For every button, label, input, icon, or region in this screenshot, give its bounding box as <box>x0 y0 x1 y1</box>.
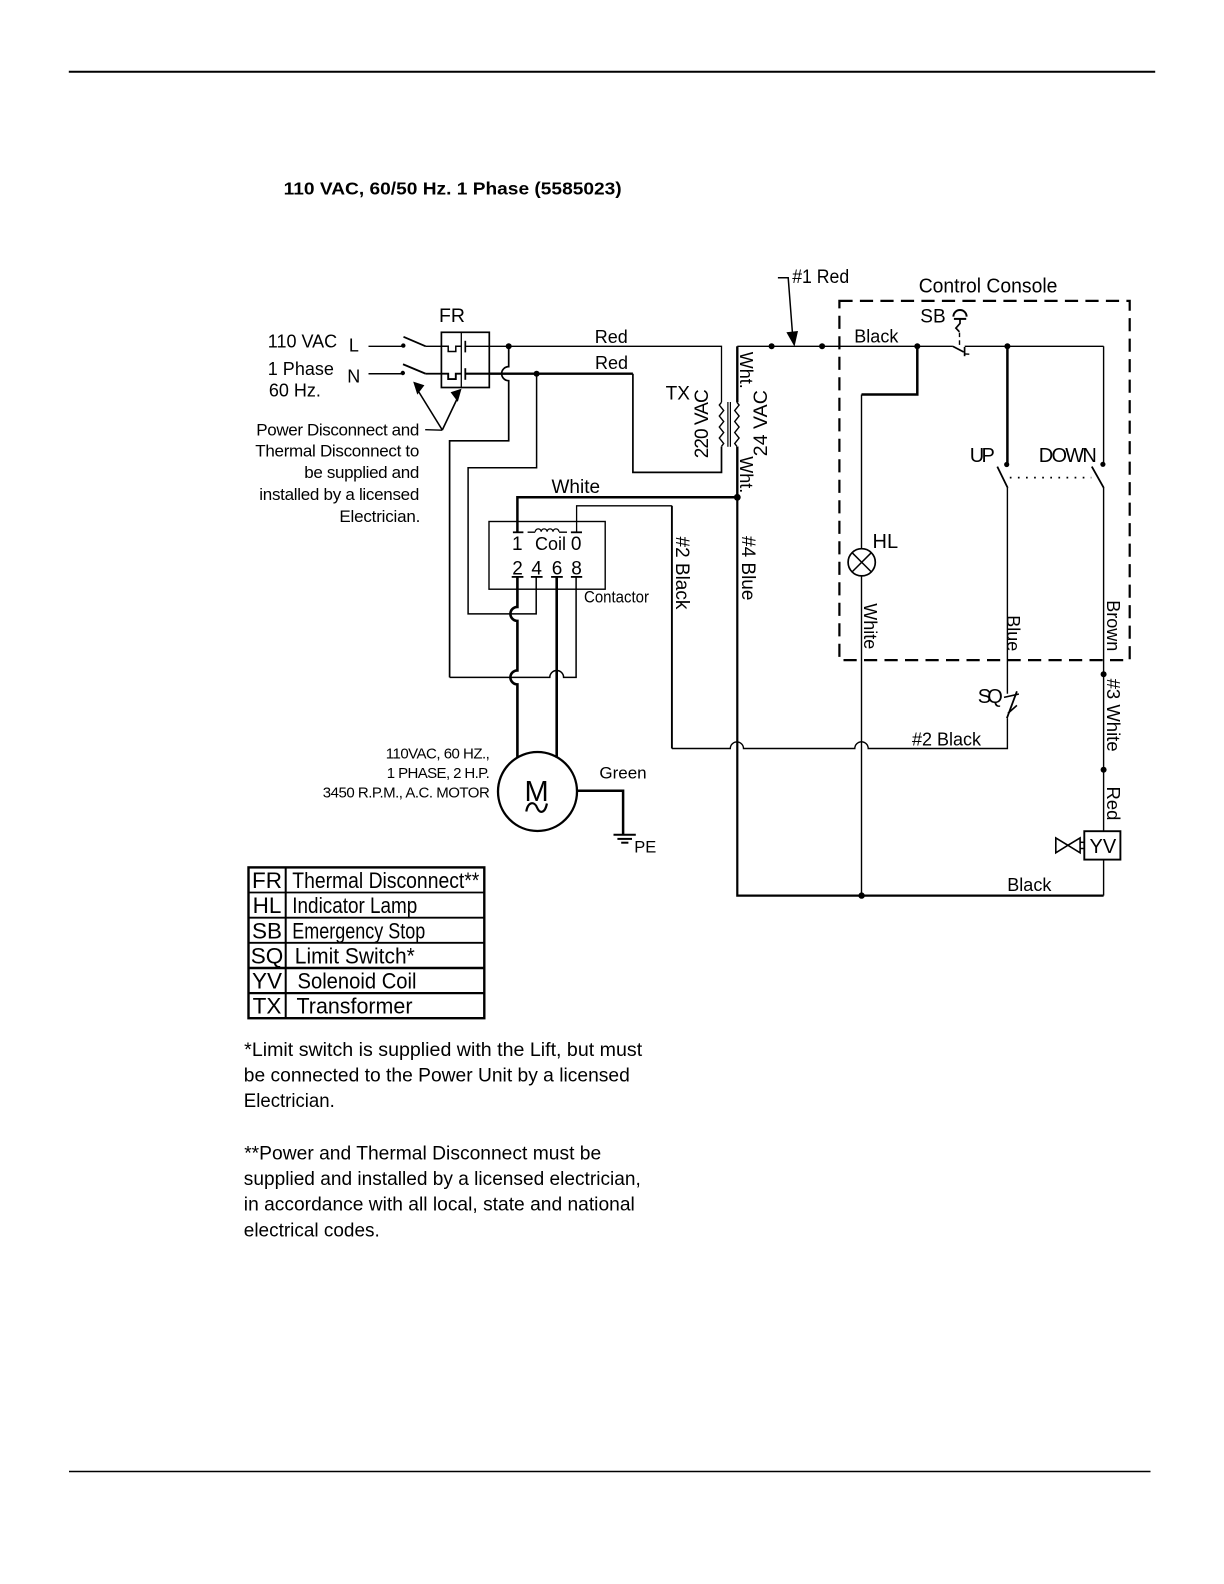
emergency stop SB mushroom head <box>953 310 966 317</box>
motor M circle <box>498 752 577 831</box>
wire YV bottom to Black rail <box>1103 860 1105 896</box>
wire L lead <box>369 345 404 347</box>
svg-text:Electrician.: Electrician. <box>244 1090 335 1112</box>
node Brown junction below console <box>1101 671 1107 677</box>
svg-text:Coil: Coil <box>535 534 566 554</box>
wire DOWN branch <box>1103 346 1105 463</box>
wire coil 0 to #2 Black <box>577 506 672 533</box>
leader arrows from note to disconnect and FR <box>417 389 458 430</box>
node TX secondary / White / #4 Blue junction <box>734 494 741 501</box>
svg-text:Black: Black <box>854 327 899 347</box>
FR contact wire L <box>465 345 489 347</box>
svg-text:#1 Red: #1 Red <box>792 267 849 288</box>
node #3 White / Red junction <box>1101 767 1107 773</box>
svg-text:YV: YV <box>252 969 282 994</box>
node DOWN contact <box>1100 462 1105 467</box>
svg-text:electrical codes.: electrical codes. <box>244 1219 380 1241</box>
svg-text:N: N <box>347 366 360 386</box>
node rail dot at UP branch <box>1004 343 1010 349</box>
wire route B (N rail down to contactor terminal 4) <box>468 374 536 614</box>
wire Red upper (L rail to TX primary) <box>489 346 721 402</box>
TX core <box>727 402 729 447</box>
svg-text:in accordance with all local,: in accordance with all local, state and … <box>244 1194 635 1216</box>
contactor box <box>489 522 605 590</box>
coil terminal tick 1 <box>513 531 524 533</box>
FR divider <box>460 332 462 387</box>
svg-text:UP: UP <box>970 445 995 467</box>
svg-text:#2 Black: #2 Black <box>912 729 982 749</box>
wire N loop to TX primary bottom <box>633 374 722 473</box>
node N contact <box>401 371 405 375</box>
svg-text:60 Hz.: 60 Hz. <box>269 380 321 400</box>
label 110 VAC 1 Phase 60 Hz. supply <box>268 332 337 401</box>
svg-text:HL: HL <box>873 531 899 553</box>
svg-text:Emergency Stop: Emergency Stop <box>292 918 425 943</box>
svg-text:Contactor: Contactor <box>584 588 649 607</box>
svg-text:3450 R.P.M., A.C. MOTOR: 3450 R.P.M., A.C. MOTOR <box>323 785 490 802</box>
svg-text:White: White <box>552 477 601 498</box>
svg-text:installed by a licensed: installed by a licensed <box>259 485 419 504</box>
svg-text:1 PHASE, 2 H.P.: 1 PHASE, 2 H.P. <box>387 765 490 782</box>
svg-text:FR: FR <box>252 868 282 893</box>
switch blade DOWN <box>1092 467 1104 488</box>
top rule <box>69 71 1155 73</box>
wire route A horizontal with hop over terminal 6 <box>450 577 576 678</box>
terminal tick 6 <box>551 576 563 578</box>
node rail dot 1 <box>769 343 775 349</box>
svg-text:Wht.: Wht. <box>736 456 756 493</box>
wire Black rail into console <box>737 345 953 347</box>
wire TX secondary bottom lead (Wht.) <box>736 447 738 498</box>
svg-text:Blue: Blue <box>1003 615 1023 651</box>
svg-text:Thermal Disconnect to: Thermal Disconnect to <box>255 442 419 461</box>
coil terminal tick 0 <box>571 531 582 533</box>
svg-text:Solenoid Coil: Solenoid Coil <box>298 969 417 994</box>
svg-text:0: 0 <box>571 534 582 555</box>
linkage dotted line UP-DOWN <box>1010 477 1092 479</box>
svg-text:YV: YV <box>1090 836 1117 858</box>
FR heater element L <box>441 346 461 351</box>
wire terminal 6 to motor <box>555 577 558 758</box>
svg-text:TX: TX <box>666 383 691 404</box>
svg-text:220 VAC: 220 VAC <box>692 389 713 458</box>
TX primary winding <box>719 402 723 446</box>
svg-text:HL: HL <box>253 893 282 918</box>
svg-text:110 VAC: 110 VAC <box>268 332 337 352</box>
thermal disconnect FR box <box>441 332 489 387</box>
svg-text:Control Console: Control Console <box>919 276 1058 298</box>
terminal tick 4 <box>531 576 543 578</box>
svg-text:SB: SB <box>252 918 282 943</box>
svg-text:SQ: SQ <box>251 943 284 968</box>
node UP contact <box>1004 462 1009 467</box>
SB stem and linkage <box>956 319 960 332</box>
node rail dot at HL branch <box>914 343 920 349</box>
FR contact wire N <box>465 373 489 375</box>
solenoid valve YV box <box>1084 831 1120 859</box>
svg-text:Indicator Lamp: Indicator Lamp <box>292 893 417 918</box>
leader line #1 Red <box>778 278 793 335</box>
wire UP branch <box>1006 346 1009 463</box>
limit switch SQ symbol <box>1004 694 1019 697</box>
svg-text:**Power and Thermal Disconnect: **Power and Thermal Disconnect must be <box>244 1142 601 1164</box>
svg-text:Limit Switch*: Limit Switch* <box>295 943 415 968</box>
motor spec text <box>323 745 490 801</box>
svg-text:TX: TX <box>253 994 282 1019</box>
indicator lamp HL <box>848 549 875 576</box>
contactor coil symbol <box>528 529 567 532</box>
svg-text:Electrician.: Electrician. <box>339 507 420 526</box>
svg-text:Transformer: Transformer <box>297 994 413 1019</box>
ground PE symbol <box>614 834 636 836</box>
svg-text:White: White <box>860 603 880 649</box>
svg-text:Wht.: Wht. <box>736 352 756 389</box>
wire #2 Black vertical <box>671 506 673 749</box>
switch blade N (power disconnect) <box>403 364 426 373</box>
node junction upper rail <box>506 343 512 349</box>
legend table frame <box>249 867 485 1018</box>
FR contact bar L <box>464 341 466 353</box>
wire #2 Black horizontal to SQ with hops <box>672 718 1008 748</box>
svg-text:110 VAC, 60/50 Hz. 1 Phase (55: 110 VAC, 60/50 Hz. 1 Phase (5585023) <box>284 179 622 199</box>
svg-text:#4 Blue: #4 Blue <box>737 536 758 600</box>
wire route A (L rail down to contactor terminal 8) <box>450 346 509 677</box>
switch blade L (power disconnect) <box>404 337 426 347</box>
svg-text:supplied and installed by a li: supplied and installed by a licensed ele… <box>244 1168 641 1190</box>
wire L to FR <box>426 345 442 347</box>
node rail dot 2 <box>819 343 825 349</box>
svg-text:*Limit switch is supplied with: *Limit switch is supplied with the Lift,… <box>244 1039 643 1061</box>
svg-text:SQ: SQ <box>978 686 1003 708</box>
svg-text:Red: Red <box>595 353 628 373</box>
svg-text:24 VAC: 24 VAC <box>750 390 772 456</box>
svg-text:Thermal Disconnect**: Thermal Disconnect** <box>292 868 479 893</box>
valve bowtie symbol <box>1056 838 1068 853</box>
terminal tick 8 <box>571 576 582 578</box>
svg-text:Black: Black <box>1007 875 1052 895</box>
wire step down to HL <box>862 346 918 394</box>
wire Green (motor to PE) <box>577 791 623 835</box>
FR contact bar N <box>464 368 466 380</box>
SB contact blade <box>953 346 964 352</box>
bottom rule <box>69 1471 1151 1473</box>
svg-text:FR: FR <box>439 305 465 327</box>
wire White (TX secondary to coil terminal 1) <box>517 497 737 531</box>
svg-text:SB: SB <box>920 307 945 328</box>
svg-text:Green: Green <box>599 763 646 782</box>
wire N lead <box>369 373 403 375</box>
TX secondary winding <box>735 402 739 446</box>
switch blade UP <box>997 467 1007 488</box>
footnote power disconnect <box>244 1142 641 1241</box>
footnote limit switch <box>244 1039 643 1112</box>
wire Red lower bold (N rail) <box>489 373 633 375</box>
svg-text:#2 Black: #2 Black <box>671 537 692 610</box>
svg-text:Power Disconnect and: Power Disconnect and <box>256 421 419 440</box>
terminal tick 2 <box>512 576 524 578</box>
svg-text:L: L <box>349 335 359 355</box>
svg-text:M: M <box>525 776 549 808</box>
motor AC tilde <box>526 803 547 812</box>
svg-text:PE: PE <box>634 838 656 856</box>
legend table text <box>251 868 480 1019</box>
svg-text:Brown: Brown <box>1103 600 1123 651</box>
wire HL top lead <box>861 395 863 549</box>
wire Brown (DOWN to YV) <box>1103 488 1105 831</box>
note Power Disconnect text block <box>255 421 420 526</box>
wire rail after SB <box>965 345 1104 347</box>
svg-text:be connected to the Power Unit: be connected to the Power Unit by a lice… <box>244 1065 630 1087</box>
svg-text:Red: Red <box>595 327 628 347</box>
wire TX secondary top lead (Wht.) <box>736 346 738 402</box>
node L contact <box>401 343 405 347</box>
svg-text:be supplied and: be supplied and <box>304 463 419 482</box>
node junction White at bottom rail <box>858 892 864 898</box>
svg-text:110VAC, 60 HZ.,: 110VAC, 60 HZ., <box>386 745 490 762</box>
control console dashed box <box>839 301 1129 660</box>
FR heater element N <box>441 374 461 379</box>
wire #4 Blue (down to bottom rail) <box>737 497 1103 895</box>
node junction N rail <box>534 371 540 377</box>
wire terminal 2 to motor with hops <box>510 577 517 758</box>
svg-text:Red: Red <box>1103 787 1124 821</box>
wire HL bottom lead (White) <box>861 576 863 896</box>
svg-text:1: 1 <box>512 534 523 555</box>
arrowhead #1 Red <box>786 331 798 347</box>
wire N to FR <box>426 373 442 375</box>
svg-text:#3 White: #3 White <box>1103 679 1124 752</box>
svg-text:1 Phase: 1 Phase <box>268 359 334 379</box>
svg-text:DOWN: DOWN <box>1039 445 1097 467</box>
wire Blue (UP to SQ) <box>1006 488 1008 694</box>
